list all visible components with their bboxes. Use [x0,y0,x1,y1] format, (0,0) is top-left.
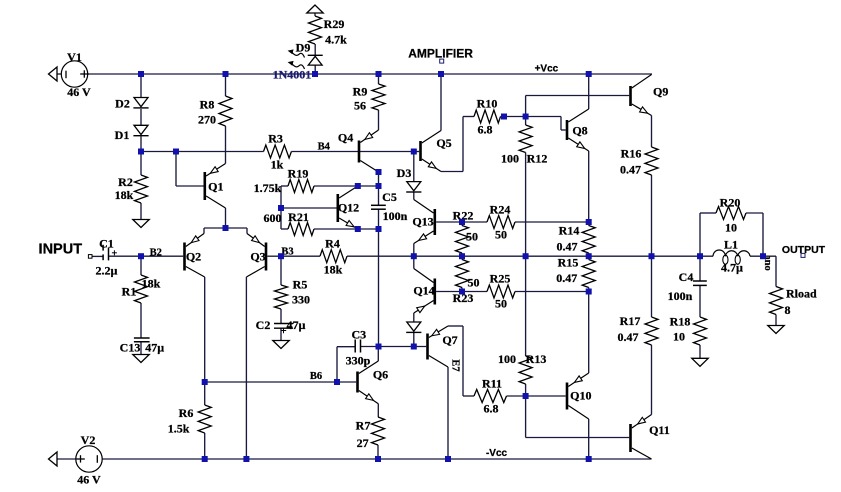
ground C2 [273,341,289,349]
label R11 [482,377,502,391]
svg-text:0.47: 0.47 [620,163,641,177]
wire R1 to C13 [140,303,142,338]
value R18 10 [673,330,685,344]
wire INPUT stub [92,255,103,257]
wire Q9 base row [526,95,630,97]
label C2 [256,318,271,332]
wire R7 bottom lead [377,445,379,459]
wire D1 to node [140,136,142,151]
value R3 1k [271,158,284,172]
label +Vcc [535,64,559,75]
resistor R11 [474,390,507,403]
label Q13 [412,215,433,229]
value V2 46 V [77,473,101,487]
svg-text:0.47: 0.47 [556,271,577,285]
wire V2 left lead [57,458,76,460]
label R29 [324,17,345,31]
resistor R5 [275,285,288,309]
svg-text:Q10: Q10 [570,389,591,403]
label Rload [786,287,817,301]
wire C2 to ground [280,328,282,340]
label R5 [293,278,308,292]
svg-text:R19: R19 [288,167,309,181]
wire Rload top lead [775,256,777,286]
wire Q9 emitter lead [651,116,653,148]
wire Q7 base row [379,346,427,348]
wire Q6 collector lead [377,347,379,362]
wire D3 to Q13 [413,192,415,200]
wire R13 top lead [525,256,527,356]
resistor R9 [372,84,385,110]
svg-text:Q13: Q13 [412,215,433,229]
svg-text:Q9: Q9 [653,85,668,99]
wire R19 right lead [314,185,358,187]
wire C13 to ground [140,342,142,355]
wire R2 top lead [140,152,142,176]
wire R23 bottom stub [461,288,463,292]
svg-text:R16: R16 [621,147,642,161]
transistor Q3 [246,234,267,278]
svg-text:V2: V2 [81,433,96,447]
label R12 [527,152,548,166]
transistor Q1 [204,164,226,209]
wire D3 upper lead [413,152,415,182]
wire Q11 base row [526,437,630,439]
wire C4 top lead [699,256,701,281]
wire Q5 base stub [414,151,419,153]
resistor R7 [372,417,385,445]
wire L1 right to corner [750,255,776,257]
label V1 [67,50,82,64]
value C2 47u [287,318,306,332]
wire R6 bottom lead [204,433,206,459]
arrow terminal above R29 [307,5,323,13]
svg-text:R10: R10 [477,97,498,111]
wire R1 top lead [140,256,142,275]
value R2 18k [115,188,134,202]
wire C1 to B2 to Q2 base [109,255,184,257]
wire R4 left lead [281,255,320,257]
svg-text:0.47: 0.47 [618,330,639,344]
svg-text:R7: R7 [356,419,371,433]
ground C13 [133,355,149,363]
label R20 [720,196,741,210]
svg-text:B4: B4 [318,142,331,153]
value Rload 8 [785,303,791,317]
svg-text:Q4: Q4 [338,131,353,145]
wire node 186-378 [358,185,379,187]
LED D9 [288,49,323,69]
transistor Q4 [358,130,379,172]
resistor Rload [770,287,783,315]
svg-text:L1: L1 [724,238,738,252]
label R23 [453,291,474,305]
transistor Q12 [337,186,358,229]
label D2 [115,97,130,111]
svg-text:Q8: Q8 [572,124,587,138]
resistor R24 [487,216,515,229]
svg-text:Q12: Q12 [338,201,359,215]
svg-text:B6: B6 [310,371,322,382]
value D9 1N4001 [273,68,312,82]
wire Q7 collector horizontal [448,325,463,327]
svg-text:4.7µ: 4.7µ [721,261,743,275]
wire Rload bottom lead [775,315,777,326]
wire R8 to Q1 emitter [225,126,227,164]
wire R23 top stub [461,256,463,259]
voltage source V1 [61,61,89,87]
svg-text:R5: R5 [293,278,308,292]
svg-text:18k: 18k [142,277,161,291]
value R11 6.8 [484,402,499,416]
svg-text:100n: 100n [668,289,693,303]
transistor Q7 [426,326,448,367]
wire R29 top [314,13,316,16]
label B3 [281,246,293,257]
svg-text:R18: R18 [670,315,691,329]
svg-text:D9: D9 [296,41,311,55]
label Q7 [442,333,457,347]
svg-text:R3: R3 [268,132,283,146]
label C4 [679,270,694,284]
svg-text:C4: C4 [679,270,694,284]
wire R10 left jog vertical [462,117,464,172]
ground R2 [133,220,149,228]
resistor R14 [582,226,595,254]
value R12 100 [501,152,519,166]
wire Q2 collector lead [204,277,206,382]
svg-text:Q1: Q1 [208,180,223,194]
resistor R1 [135,275,148,303]
svg-text:Rload: Rload [786,287,817,301]
svg-text:R12: R12 [527,152,548,166]
svg-text:6.8: 6.8 [484,402,499,416]
label C1 [99,237,114,251]
label R21 [288,210,309,224]
wire B4 row left [141,151,264,153]
label Q4 [338,131,353,145]
value R25 50 [495,297,507,311]
svg-text:R29: R29 [324,17,345,31]
value R8 270 [198,113,216,127]
wire Q2 emitter stub [203,228,205,234]
wire Q5 collector lead [440,74,442,131]
svg-text:C5: C5 [382,190,397,204]
wire Q1 base horizontal [176,185,204,187]
label R22 [453,209,474,223]
resistor R13 [519,356,532,384]
capacitor C1 [103,245,117,261]
wire R21 right lead [314,228,358,230]
value R10 6.8 [478,123,493,137]
label B2 [150,247,162,258]
capacitor C3 [355,340,360,353]
label Q3 [250,250,265,264]
svg-text:AMPLIFIER: AMPLIFIER [408,46,473,60]
label R13 [526,352,547,366]
svg-text:+Vcc: +Vcc [535,64,559,75]
wire C4 to R18 [699,285,701,317]
svg-text:C3: C3 [351,328,366,342]
resistor R29 [309,16,322,44]
label C3 [351,328,366,342]
svg-text:18k: 18k [324,263,343,277]
svg-text:Q3: Q3 [250,250,265,264]
value R23 50 [468,276,480,290]
svg-text:R14: R14 [559,224,580,238]
diode D3 [406,182,421,192]
wire Q7 emitter vertical E7 [447,367,449,459]
transistor Q6 [356,361,378,404]
wire R6 top lead [204,382,206,405]
wire B4 row right [291,151,413,153]
label R18 [670,315,691,329]
transistor Q13 [414,200,436,244]
wire R10 left jog horizontal [441,171,463,173]
wire Q14 base row R25 [436,291,487,293]
label Q11 [649,423,670,437]
wire R20 left vertical [699,213,701,256]
svg-text:R17: R17 [620,314,641,328]
svg-text:46 V: 46 V [67,85,91,99]
wire diff emitter row [204,227,247,229]
capacitor C13 [134,338,150,342]
value R17 0.47 [618,330,639,344]
wire R11 to Q10 base [507,395,566,397]
wire R2 bottom lead [140,203,142,220]
svg-text:D1: D1 [115,128,130,142]
svg-text:V1: V1 [67,50,82,64]
wire Q7 collector down [462,326,464,396]
svg-text:50: 50 [495,228,507,242]
wire R17 to Q11 [651,345,653,415]
svg-text:B2: B2 [150,247,162,258]
resistor R10 [474,110,501,123]
label Q10 [570,389,591,403]
wire R14 bottom stub [588,253,590,256]
wire B6 row [205,381,357,383]
wire Q8 collector lead [588,74,590,109]
label AMPLIFIER [408,46,473,60]
label C13 [120,341,141,355]
svg-text:R1: R1 [122,285,137,299]
label R3 [268,132,283,146]
value C4 100n [668,289,693,303]
label R6 [179,406,194,420]
resistor R8 [219,96,232,126]
svg-text:47µ: 47µ [287,318,306,332]
svg-text:1.5k: 1.5k [168,422,190,436]
wire R29-D9 [314,44,316,55]
svg-text:-Vcc: -Vcc [486,448,508,459]
resistor R17 [645,317,658,345]
ground C4-R18 [692,358,708,366]
svg-text:1k: 1k [271,158,284,172]
value R7 27 [357,436,369,450]
resistor R21 [288,223,314,236]
label D3 [397,166,412,180]
svg-text:27: 27 [357,436,369,450]
svg-text:2.2µ: 2.2µ [95,264,117,278]
resistor R19 [288,180,314,193]
capacitor C2 [274,324,293,334]
capacitor C5 [371,205,386,209]
value V1 46 V [67,85,91,99]
svg-text:1N4001: 1N4001 [273,68,312,82]
transistor Q9 [629,75,651,116]
wire R10 right lead [501,116,562,118]
svg-text:50: 50 [495,297,507,311]
resistor R22 [456,226,469,254]
wire Q3 emitter stub [246,228,248,234]
svg-text:18k: 18k [115,188,134,202]
label R24 [490,203,511,217]
wire C3 right lead [361,346,379,348]
wire Q12 base [281,207,337,209]
wire R17 top lead [651,256,653,317]
value C1 2.2u [95,264,117,278]
svg-text:INPUT: INPUT [39,241,83,257]
wire R25 right lead [515,291,589,293]
wire diode to Q7 node [413,332,415,347]
value C3 330p [346,353,371,367]
wire Q8 emitter lead [588,151,590,222]
label Q12 [338,201,359,215]
value R22 50 [466,230,478,244]
wire R19 left lead [281,185,288,187]
svg-text:R4: R4 [325,237,340,251]
value C5 100n [383,209,408,223]
wire R15 top stub [588,256,590,259]
resistor R16 [645,147,658,175]
transistor Q10 [566,373,589,419]
svg-text:100: 100 [501,152,519,166]
wire R20 right vertical [762,213,764,256]
svg-text:600: 600 [264,211,282,225]
output terminal [801,253,805,257]
svg-text:R21: R21 [288,210,309,224]
wire Q11 base vertical [525,396,527,438]
label R17 [620,314,641,328]
wire Q10 collector lead [588,419,590,459]
label R9 [353,85,368,99]
label R15 [558,256,579,270]
wire R18 bottom lead [699,345,701,358]
value R4 18k [324,263,343,277]
svg-text:C2: C2 [256,318,271,332]
svg-text:R20: R20 [720,196,741,210]
inductor L1 [713,250,750,264]
wire Q8 base jog [561,117,566,131]
wire Q3 base to B3 [267,255,281,257]
label D9 [296,41,311,55]
value L1 4.7u [721,261,743,275]
value R24 50 [495,228,507,242]
label R7 [356,419,371,433]
svg-text:R11: R11 [482,377,502,391]
svg-text:50: 50 [468,276,480,290]
svg-text:R13: R13 [526,352,547,366]
V2 terminal arrow [49,452,58,466]
wire R13 bottom lead [525,384,527,396]
transistor Q2 [183,234,205,278]
label R16 [621,147,642,161]
svg-text:R24: R24 [490,203,511,217]
wire D2 branch [140,74,142,98]
svg-text:4.7k: 4.7k [325,33,347,47]
transistor Q8 [566,109,589,151]
svg-text:D2: D2 [115,97,130,111]
wire node 229-378 [358,228,379,230]
wire D2-D1 [140,109,142,125]
wire bottom -Vcc rail [103,458,652,460]
svg-text:10: 10 [725,221,737,235]
label out rotated [762,256,773,271]
svg-text:270: 270 [198,113,216,127]
svg-text:100n: 100n [383,209,408,223]
label L1 [724,238,738,252]
value R20 10 [725,221,737,235]
label R25 [490,272,511,286]
svg-text:E7: E7 [450,359,461,371]
wire C3 branch vertical [336,347,338,382]
value R13 100 [498,352,516,366]
value R6 1.5k [168,422,190,436]
svg-text:R6: R6 [179,406,194,420]
label -Vcc [486,448,508,459]
diode D2 [133,98,148,108]
label OUTPUT [782,244,826,256]
label R1 [122,285,137,299]
svg-text:R2: R2 [118,175,133,189]
resistor R20 [716,207,746,220]
label Q2 [186,250,201,264]
wire R5 top lead [280,256,282,285]
svg-text:Q14: Q14 [413,284,434,298]
wire C5 bottom lead [378,209,380,346]
wire V1 left lead [57,73,62,75]
label R2 [118,175,133,189]
label Q5 [436,136,451,150]
wire Q6 emitter lead [377,404,379,417]
label B6 [310,371,322,382]
svg-text:56: 56 [354,99,366,113]
value R9 56 [354,99,366,113]
wire C5 top lead [378,172,380,205]
label Q14 [413,284,434,298]
svg-text:100: 100 [498,352,516,366]
wire R9 to Q4 emitter [378,110,380,130]
wire R11 left lead [463,395,474,397]
value R16 0.47 [620,163,641,177]
svg-text:6.8: 6.8 [478,123,493,137]
resistor R4 [320,250,347,263]
wire Q3 collector lead [245,277,247,459]
value R14 0.47 [557,240,578,254]
svg-text:10: 10 [673,330,685,344]
label Q6 [373,368,388,382]
wire R5 to C2 [280,309,282,323]
wire +Vcc rail [88,73,652,75]
input terminal [88,255,92,259]
transistor Q5 [419,131,441,172]
svg-text:Q2: Q2 [186,250,201,264]
label E7 [450,359,461,371]
value R1 18k [142,277,161,291]
wire R9 top lead [378,74,380,84]
resistor R18 [694,317,707,345]
resistor R25 [487,285,515,298]
